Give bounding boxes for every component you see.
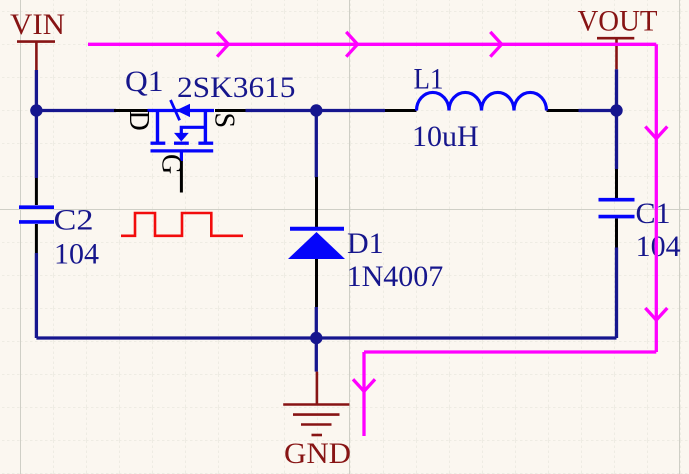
anode lead	[315, 259, 318, 307]
anode triangle	[288, 232, 345, 259]
current flow arrowhead 6	[353, 379, 375, 391]
Q1 drain vertical	[156, 111, 159, 144]
wire top-left horizontal	[36, 109, 116, 112]
wire C1 down to bottom rail	[615, 248, 618, 339]
cathode lead	[315, 177, 318, 228]
svg-text:VOUT: VOUT	[578, 5, 658, 38]
pin 2 lead	[547, 109, 579, 112]
wire switch node horizontal	[246, 109, 386, 112]
wire switch node down to D1	[315, 111, 318, 178]
wire VIN stem	[35, 70, 38, 111]
wire ground stub	[315, 338, 318, 372]
Q1 source vertical	[204, 111, 207, 144]
junction at switch node	[310, 104, 322, 116]
pin 1 lead	[35, 178, 38, 205]
Q1 body diode triangle	[176, 104, 190, 117]
pin 1 lead	[385, 109, 417, 112]
junction at ground node	[310, 332, 322, 344]
plate 1	[19, 205, 54, 209]
plate 2	[19, 220, 54, 224]
Q1 channel bar left	[151, 142, 166, 145]
wire VOUT stem	[615, 69, 618, 110]
wire VOUT node down to C1	[615, 111, 618, 170]
Q1 gate plate	[151, 149, 214, 152]
current flow arrowhead 3	[490, 32, 501, 57]
current flow arrow right vertical	[655, 44, 658, 352]
pin 1 lead	[615, 169, 618, 198]
svg-text:2SK3615: 2SK3615	[177, 71, 296, 104]
current flow arrow bottom horizontal	[364, 350, 656, 353]
power port VIN	[10, 8, 65, 72]
svg-text:D1: D1	[347, 227, 384, 260]
svg-text:1N4007: 1N4007	[347, 260, 444, 293]
pin 2 lead	[35, 224, 38, 253]
Q1 channel bar middle	[174, 142, 189, 145]
Q1 channel bar right	[198, 142, 213, 145]
current flow arrowhead 4	[645, 127, 667, 139]
svg-text:VIN: VIN	[10, 8, 65, 41]
svg-text:G: G	[156, 154, 187, 174]
pin D lead	[114, 109, 148, 112]
diode D1	[288, 177, 345, 307]
current flow arrowhead 1	[217, 32, 228, 57]
current flow arrow top horizontal	[88, 43, 656, 46]
Q1 body diode cathode slash	[171, 100, 180, 120]
Q1 body rail	[148, 109, 215, 112]
Q1 gate stub	[180, 151, 183, 161]
svg-text:C2: C2	[54, 204, 94, 237]
coil arcs	[417, 92, 547, 110]
waveform symbol (gate drive)	[121, 213, 243, 236]
svg-text:L1: L1	[414, 63, 444, 96]
plate 2	[599, 215, 635, 219]
junction at VIN node	[30, 104, 42, 116]
junction at VOUT node	[610, 104, 622, 116]
inductor L1	[385, 92, 579, 110]
svg-text:104: 104	[54, 238, 99, 271]
cathode bar	[290, 227, 344, 231]
svg-text:D: D	[123, 111, 154, 131]
svg-text:104: 104	[636, 230, 681, 263]
wire left vertical lower	[35, 253, 38, 338]
wire bottom rail	[36, 336, 616, 339]
Q1 substrate arrow	[174, 133, 189, 142]
svg-text:S: S	[209, 113, 240, 129]
svg-text:10uH: 10uH	[412, 120, 479, 153]
svg-text:Q1: Q1	[125, 65, 164, 98]
wire left vertical upper	[35, 111, 38, 179]
Q1 body-source link	[181, 127, 205, 133]
power port VOUT	[578, 5, 658, 70]
capacitor C2	[19, 178, 54, 253]
pin 2 lead	[615, 219, 618, 248]
pin S lead	[215, 109, 246, 112]
pin G lead	[180, 160, 183, 193]
ground symbol	[283, 372, 349, 435]
svg-text:C1: C1	[636, 197, 671, 230]
current flow arrowhead 2	[346, 32, 357, 57]
plate 1	[599, 198, 635, 202]
capacitor C1	[599, 169, 635, 248]
current flow arrowhead 5	[645, 308, 667, 320]
wire D1 to bottom rail	[315, 307, 318, 338]
transistor Q1 (N-MOSFET)	[114, 100, 246, 193]
wire L1 to VOUT node	[579, 109, 617, 112]
svg-text:GND: GND	[284, 437, 351, 470]
current flow arrow left vertical	[362, 352, 365, 436]
